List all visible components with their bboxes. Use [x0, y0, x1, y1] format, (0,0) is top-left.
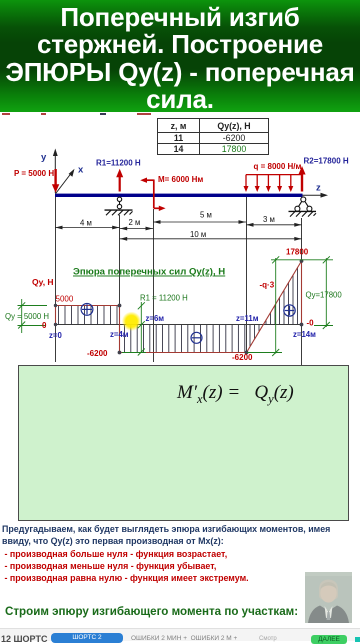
dimension 4m: [55, 226, 120, 230]
y axis: [53, 149, 58, 194]
bottom green heading: [5, 605, 360, 618]
svg-text:3 м: 3 м: [263, 215, 275, 224]
dimension 10m: [120, 237, 302, 241]
-6200 bottom line: [120, 352, 247, 354]
triangle right edge z=14: [301, 261, 303, 325]
green dim Qy=17800: [314, 256, 333, 329]
distributed load q: [244, 175, 303, 192]
beam: [55, 194, 303, 197]
hatching triangle above zero: [266, 267, 298, 324]
svg-text:5 м: 5 м: [200, 211, 212, 220]
svg-text:R1=11200 Н: R1=11200 Н: [96, 159, 141, 168]
green dim Qy=5000 left: [18, 299, 48, 333]
z axis: [302, 193, 328, 198]
svg-text:z=14м: z=14м: [293, 330, 316, 339]
svg-text:2 м: 2 м: [129, 218, 141, 227]
svg-text:Qy=17800: Qy=17800: [306, 291, 343, 300]
svg-text:5000: 5000: [56, 295, 74, 304]
hatching -6200 region: [125, 325, 245, 352]
yellow cursor highlight: [0, 0, 1, 1]
force P arrow: [52, 169, 59, 193]
dimension 5m: [153, 220, 246, 224]
svg-text:Qy, Н: Qy, Н: [32, 277, 54, 287]
svg-text:x: x: [78, 165, 84, 176]
support 1 (roller): [105, 197, 133, 215]
reaction R2 arrow: [298, 166, 305, 192]
formula Mx'(z)=Qy(z): [177, 382, 347, 407]
svg-text:0: 0: [42, 321, 47, 330]
drop at z=4: [119, 306, 121, 353]
extension line z=14: [301, 218, 303, 365]
dimension 3m: [246, 223, 302, 227]
extension line z=11: [246, 197, 248, 353]
moment M couple symbol: [140, 178, 165, 212]
svg-text:z=4м: z=4м: [110, 330, 129, 339]
dimension 2m: [120, 227, 153, 231]
x axis: [55, 169, 74, 194]
green dim R1 jump: [122, 302, 146, 356]
extension line z=6: [153, 209, 155, 362]
svg-text:P = 5000 Н: P = 5000 Н: [14, 169, 54, 178]
left edge of +5000 rect: [55, 306, 57, 325]
extension line z=0: [55, 197, 57, 362]
svg-text:y: y: [41, 152, 47, 163]
svg-text:z: z: [316, 183, 321, 194]
svg-text:10 м: 10 м: [190, 230, 206, 239]
plus sign circle 1: [81, 304, 93, 316]
svg-text:-q·3: -q·3: [260, 281, 275, 290]
svg-text:Qy = 5000 Н: Qy = 5000 Н: [5, 312, 49, 321]
svg-text:z=0: z=0: [49, 331, 62, 340]
support 2 (roller pair): [289, 197, 317, 217]
minus sign circle: [191, 332, 202, 343]
svg-text:q = 8000 Н/м: q = 8000 Н/м: [254, 162, 302, 171]
svg-text:R1 = 11200 Н: R1 = 11200 Н: [140, 294, 188, 303]
svg-text:M= 6000 Нм: M= 6000 Нм: [158, 175, 203, 184]
svg-text:R2=17800 Н: R2=17800 Н: [304, 157, 349, 166]
hatching triangle below zero: [250, 325, 259, 346]
extension line z=4: [119, 215, 121, 352]
formula box: [18, 365, 349, 521]
bottom UI bar: [0, 628, 360, 641]
junction dots: [54, 259, 304, 354]
lecturer photo: [305, 572, 352, 623]
paragraph text: [2, 523, 360, 548]
data table: [157, 118, 269, 155]
svg-text:Эпюра поперечных сил Qy(z), Н: Эпюра поперечных сил Qy(z), Н: [73, 267, 225, 278]
title header: [0, 0, 360, 112]
green dim -q*3: [248, 256, 334, 356]
svg-text:4 м: 4 м: [80, 219, 92, 228]
svg-text:z=6м: z=6м: [146, 314, 165, 323]
reaction R1 arrow: [116, 169, 123, 192]
plus sign circle 2: [284, 305, 295, 316]
svg-text:-0: -0: [307, 319, 315, 328]
+5000 top line: [55, 305, 120, 307]
svg-text:-6200: -6200: [232, 353, 253, 362]
svg-text:z=11м: z=11м: [236, 314, 259, 323]
hatching +5000 region: [59, 306, 118, 325]
svg-text:17800: 17800: [286, 248, 309, 257]
triangle hypotenuse: [247, 261, 302, 353]
zero baseline: [55, 324, 302, 326]
svg-text:-6200: -6200: [87, 349, 108, 358]
cut-off text dashes under header: [0, 113, 160, 117]
